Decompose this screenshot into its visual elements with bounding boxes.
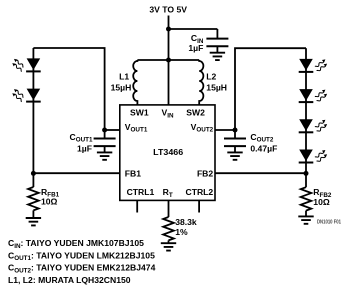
wire FB2 wire [215, 172, 306, 174]
light emission arrows of D3 [315, 59, 327, 70]
wire RT bottom lead [168, 240, 170, 243]
svg-text:1µF: 1µF [188, 43, 203, 53]
node VOUT1 node [102, 128, 107, 133]
svg-text:1%: 1% [175, 227, 188, 237]
wire FB1 wire [33, 172, 119, 174]
capacitor COUT1 plates [94, 139, 116, 147]
svg-text:LT3466: LT3466 [153, 147, 183, 157]
wire to L1 [137, 59, 168, 61]
svg-text:CTRL2: CTRL2 [185, 187, 213, 197]
wire VOUT2 pin to node [215, 129, 235, 131]
wire COUT1 bottom lead [104, 147, 106, 153]
ground of COUT1 [97, 152, 112, 159]
light emission arrows of D1 [12, 59, 23, 71]
wire VOUT1 pin to node [105, 129, 120, 131]
inductor L1 [133, 60, 137, 105]
wire COUT1 top lead [104, 131, 106, 138]
light emission arrows of D6 [315, 150, 327, 161]
wire COUT2 bottom lead [234, 147, 236, 153]
wire LED string 2 vertical [305, 48, 307, 173]
LED D2 [27, 89, 41, 101]
capacitor COUT2 plates [224, 139, 246, 147]
resistor RFB2 zigzag [301, 187, 312, 210]
ground of CIN [210, 53, 225, 60]
wire VOUT2 up and over to LED string 2 [235, 48, 306, 130]
ground of RFB2 [298, 216, 313, 223]
light emission arrows of D4 [315, 90, 327, 101]
svg-text:L2: L2 [206, 71, 216, 81]
wire CIN leads [216, 29, 218, 53]
svg-text:10Ω: 10Ω [313, 197, 330, 207]
wire RFB2 top lead [305, 173, 307, 187]
svg-text:SW2: SW2 [186, 108, 205, 118]
wire RFB1 top lead [32, 173, 34, 187]
svg-text:L1: L1 [119, 71, 129, 81]
wire RFB2 bottom lead [305, 211, 307, 217]
inductor L2 [199, 60, 203, 105]
svg-text:3V TO 5V: 3V TO 5V [149, 5, 187, 15]
svg-text:0.47µF: 0.47µF [250, 144, 277, 154]
wire COUT2 top lead [234, 131, 236, 138]
node FB2 node [304, 171, 309, 176]
svg-text:15µH: 15µH [206, 83, 227, 93]
ground of RFB1 [26, 218, 41, 225]
svg-text:1µF: 1µF [77, 144, 92, 154]
svg-text:38.3k: 38.3k [175, 217, 197, 227]
svg-text:15µH: 15µH [111, 83, 132, 93]
light emission arrows of D2 [12, 89, 23, 101]
svg-text:10Ω: 10Ω [41, 197, 58, 207]
wire to CIN [169, 28, 218, 30]
svg-text:FB2: FB2 [197, 169, 213, 179]
svg-text:DN1010 F01: DN1010 F01 [317, 220, 341, 226]
LED D3 [299, 59, 313, 71]
resistor RT zigzag [163, 217, 174, 240]
wire VOUT1 up and over to LED string 1 [33, 48, 104, 130]
node inductor junction [166, 58, 171, 63]
LED D6 [299, 150, 313, 162]
svg-text:FB1: FB1 [125, 169, 141, 179]
node supply junction to CIN [166, 27, 171, 32]
LED D4 [299, 89, 313, 101]
wire RT top lead [168, 201, 170, 218]
wire RFB1 bottom lead [32, 210, 34, 218]
wire to L2 [169, 59, 200, 61]
capacitor CIN plates [206, 39, 228, 47]
svg-text:L1, L2: MURATA LQH32CN150: L1, L2: MURATA LQH32CN150 [8, 275, 131, 285]
resistor RFB1 zigzag [28, 187, 39, 210]
LED D1 [27, 58, 41, 70]
svg-text:CTRL1: CTRL1 [127, 187, 155, 197]
ground of COUT2 [227, 152, 242, 159]
LED D5 [299, 119, 313, 131]
wire CTRL2 stub [198, 201, 200, 213]
light emission arrows of D5 [315, 120, 327, 131]
wire CTRL1 stub [136, 201, 138, 213]
svg-text:SW1: SW1 [130, 108, 149, 118]
node FB1 node [31, 171, 36, 176]
ground of RT [161, 243, 176, 250]
node VOUT2 node [233, 128, 238, 133]
op-amp/IC U1 LT3466 body [120, 105, 215, 200]
wire LED string 1 vertical [32, 48, 34, 173]
wire VIN supply vertical [168, 16, 170, 106]
